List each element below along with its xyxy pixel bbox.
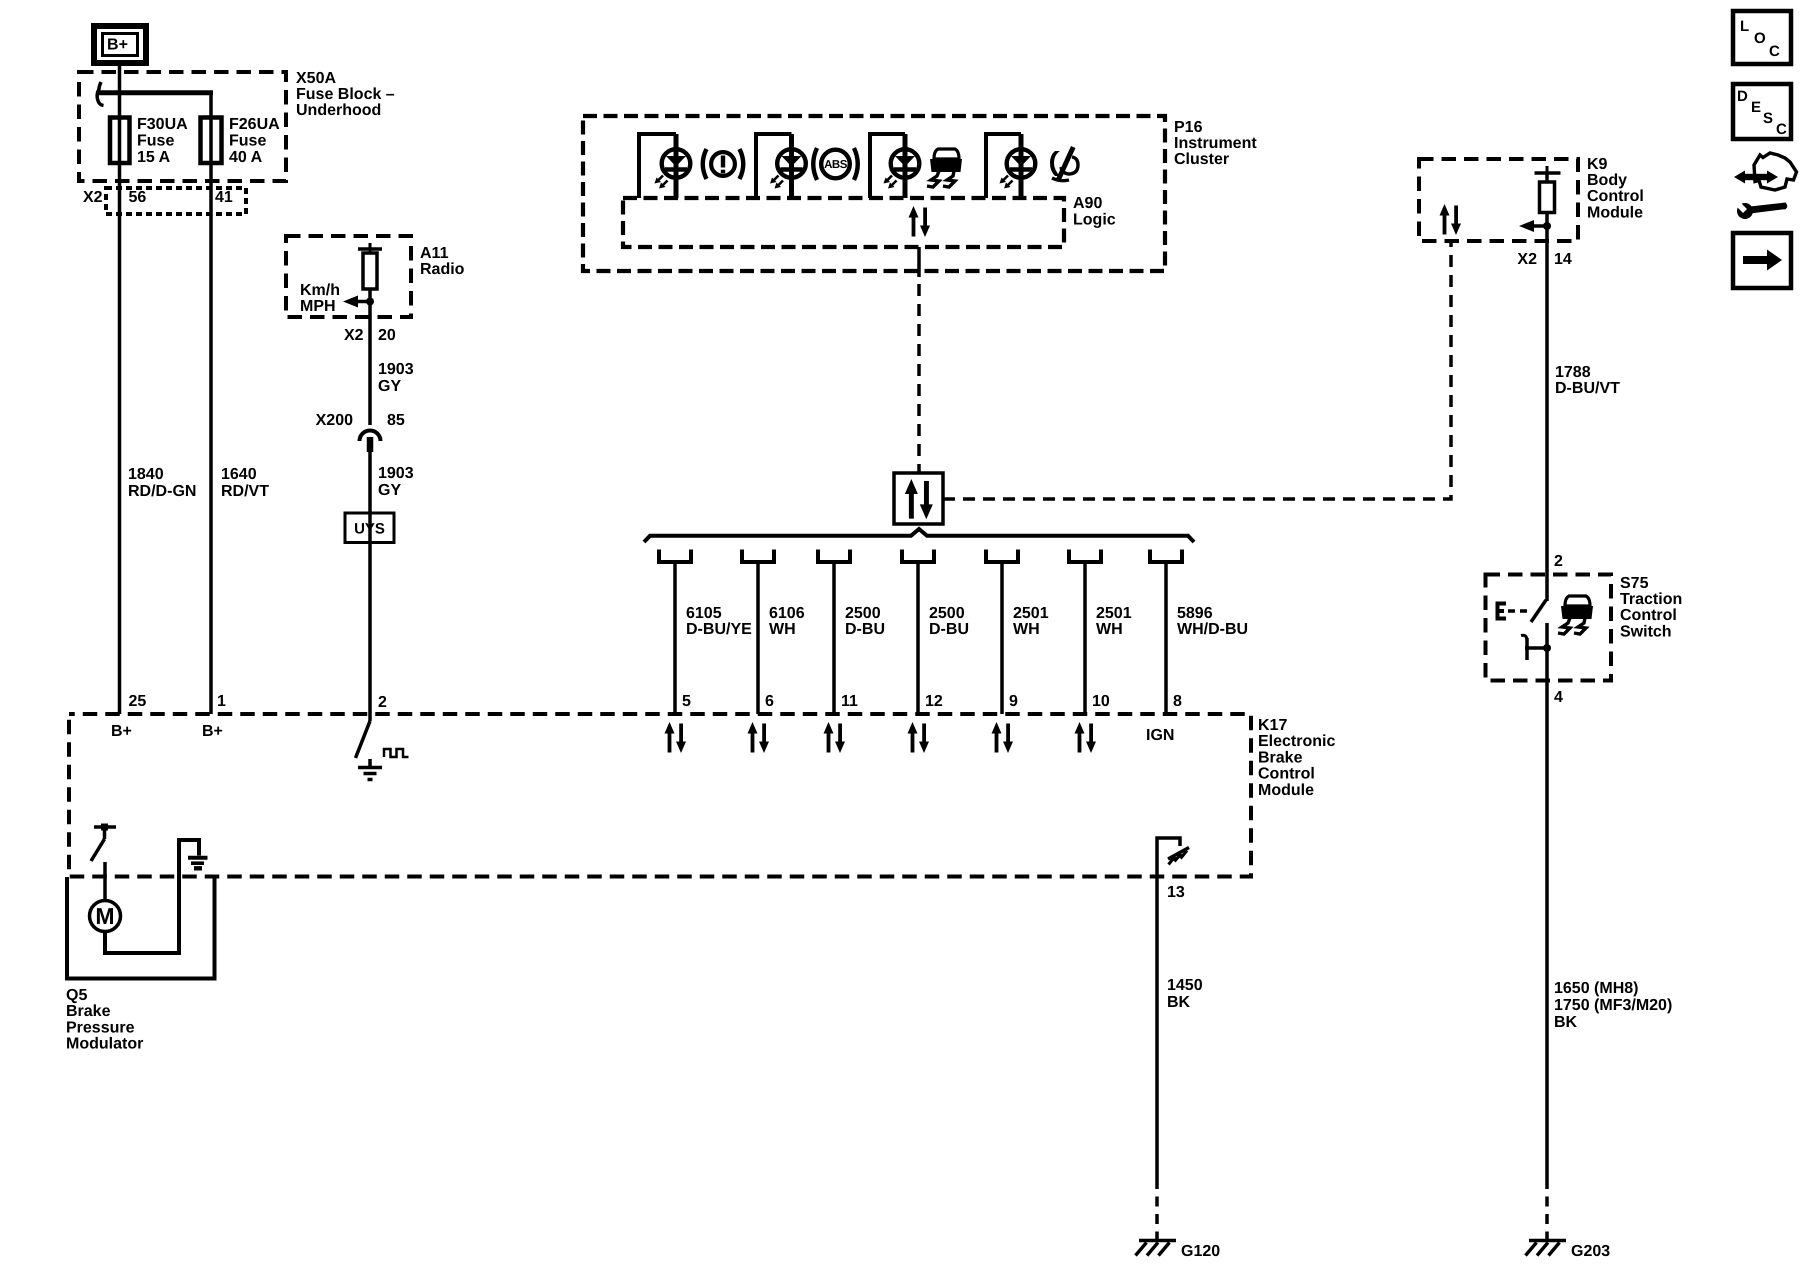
svg-text:41: 41 xyxy=(215,189,233,206)
svg-text:20: 20 xyxy=(378,327,396,344)
svg-text:Pressure: Pressure xyxy=(66,1019,135,1036)
svg-text:Modulator: Modulator xyxy=(66,1036,143,1053)
svg-text:WH: WH xyxy=(1096,621,1123,638)
svg-text:C: C xyxy=(1769,43,1780,60)
svg-text:D-BU: D-BU xyxy=(845,621,885,638)
svg-text:A90: A90 xyxy=(1073,195,1102,212)
svg-text:14: 14 xyxy=(1554,251,1572,268)
svg-text:Module: Module xyxy=(1587,204,1643,221)
svg-text:6: 6 xyxy=(765,693,774,710)
svg-text:BK: BK xyxy=(1167,994,1191,1011)
svg-text:Control: Control xyxy=(1620,607,1677,624)
svg-text:B+: B+ xyxy=(111,723,132,740)
svg-text:4: 4 xyxy=(1554,689,1563,706)
svg-text:G120: G120 xyxy=(1181,1243,1220,1260)
svg-text:K17: K17 xyxy=(1258,717,1287,734)
svg-text:GY: GY xyxy=(378,378,401,395)
svg-text:Fuse: Fuse xyxy=(137,133,174,150)
svg-text:WH/D-BU: WH/D-BU xyxy=(1177,621,1248,638)
svg-text:2: 2 xyxy=(378,694,387,711)
svg-text:ABS: ABS xyxy=(824,159,848,171)
svg-text:MPH: MPH xyxy=(300,298,336,315)
svg-text:85: 85 xyxy=(387,412,405,429)
svg-text:Km/h: Km/h xyxy=(300,282,340,299)
svg-text:Body: Body xyxy=(1587,172,1627,189)
svg-text:Instrument: Instrument xyxy=(1174,135,1257,152)
svg-text:6105: 6105 xyxy=(686,605,722,622)
svg-text:D-BU/VT: D-BU/VT xyxy=(1555,380,1620,397)
svg-text:11: 11 xyxy=(841,693,858,710)
svg-text:D-BU/YE: D-BU/YE xyxy=(686,621,752,638)
svg-text:8: 8 xyxy=(1173,693,1182,710)
svg-text:X200: X200 xyxy=(316,412,353,429)
svg-text:WH: WH xyxy=(1013,621,1040,638)
svg-text:1640: 1640 xyxy=(221,466,257,483)
svg-text:D-BU: D-BU xyxy=(929,621,969,638)
svg-text:Underhood: Underhood xyxy=(296,102,381,119)
svg-text:12: 12 xyxy=(925,693,943,710)
svg-text:K9: K9 xyxy=(1587,156,1608,173)
svg-text:O: O xyxy=(1754,30,1766,47)
svg-text:Switch: Switch xyxy=(1620,623,1672,640)
svg-text:BK: BK xyxy=(1554,1014,1578,1031)
svg-text:13: 13 xyxy=(1167,884,1185,901)
svg-text:Brake: Brake xyxy=(66,1003,111,1020)
svg-text:G203: G203 xyxy=(1571,1243,1610,1260)
svg-text:S: S xyxy=(1763,110,1773,127)
svg-text:Q5: Q5 xyxy=(66,987,87,1004)
svg-text:B+: B+ xyxy=(202,723,223,740)
svg-text:D: D xyxy=(1737,88,1748,105)
svg-text:Traction: Traction xyxy=(1620,591,1682,608)
svg-text:F26UA: F26UA xyxy=(229,116,280,133)
svg-text:1650 (MH8): 1650 (MH8) xyxy=(1554,980,1638,997)
svg-text:25: 25 xyxy=(129,693,147,710)
svg-text:40 A: 40 A xyxy=(229,149,263,166)
svg-text:P16: P16 xyxy=(1174,119,1203,136)
svg-text:X50A: X50A xyxy=(296,70,336,87)
svg-text:5: 5 xyxy=(682,693,691,710)
svg-text:Fuse Block –: Fuse Block – xyxy=(296,86,395,103)
svg-text:X2: X2 xyxy=(1517,251,1537,268)
svg-text:2501: 2501 xyxy=(1013,605,1049,622)
svg-text:Control: Control xyxy=(1258,766,1315,783)
svg-text:1: 1 xyxy=(217,693,226,710)
svg-text:Control: Control xyxy=(1587,188,1644,205)
svg-text:IGN: IGN xyxy=(1146,727,1174,744)
svg-text:Logic: Logic xyxy=(1073,212,1116,229)
svg-text:1750 (MF3/M20): 1750 (MF3/M20) xyxy=(1554,997,1672,1014)
svg-text:B+: B+ xyxy=(107,37,128,54)
svg-text:1450: 1450 xyxy=(1167,977,1203,994)
svg-text:1903: 1903 xyxy=(378,361,414,378)
svg-text:9: 9 xyxy=(1009,693,1018,710)
svg-text:Brake: Brake xyxy=(1258,749,1303,766)
svg-text:1840: 1840 xyxy=(128,466,164,483)
svg-text:M: M xyxy=(95,903,114,929)
svg-text:6106: 6106 xyxy=(769,605,805,622)
svg-text:C: C xyxy=(1776,121,1787,138)
svg-text:L: L xyxy=(1740,18,1749,35)
svg-text:RD/D-GN: RD/D-GN xyxy=(128,483,196,500)
svg-text:GY: GY xyxy=(378,482,401,499)
svg-text:56: 56 xyxy=(129,189,147,206)
svg-text:WH: WH xyxy=(769,621,796,638)
svg-text:2501: 2501 xyxy=(1096,605,1132,622)
svg-text:RD/VT: RD/VT xyxy=(221,483,269,500)
svg-text:E: E xyxy=(1751,99,1761,116)
svg-text:5896: 5896 xyxy=(1177,605,1213,622)
svg-text:Cluster: Cluster xyxy=(1174,151,1229,168)
svg-text:15 A: 15 A xyxy=(137,149,171,166)
svg-text:10: 10 xyxy=(1092,693,1110,710)
svg-text:UYS: UYS xyxy=(354,521,385,538)
svg-text:S75: S75 xyxy=(1620,575,1649,592)
svg-text:Electronic: Electronic xyxy=(1258,733,1335,750)
svg-text:2500: 2500 xyxy=(929,605,965,622)
svg-text:F30UA: F30UA xyxy=(137,116,188,133)
svg-text:A11: A11 xyxy=(420,245,449,262)
svg-text:Radio: Radio xyxy=(420,261,465,278)
svg-text:1788: 1788 xyxy=(1555,364,1591,381)
svg-text:1903: 1903 xyxy=(378,465,414,482)
svg-text:Fuse: Fuse xyxy=(229,133,266,150)
svg-text:Module: Module xyxy=(1258,782,1314,799)
svg-text:X2: X2 xyxy=(83,189,103,206)
svg-text:X2: X2 xyxy=(344,327,364,344)
svg-text:2: 2 xyxy=(1554,553,1563,570)
svg-text:2500: 2500 xyxy=(845,605,881,622)
